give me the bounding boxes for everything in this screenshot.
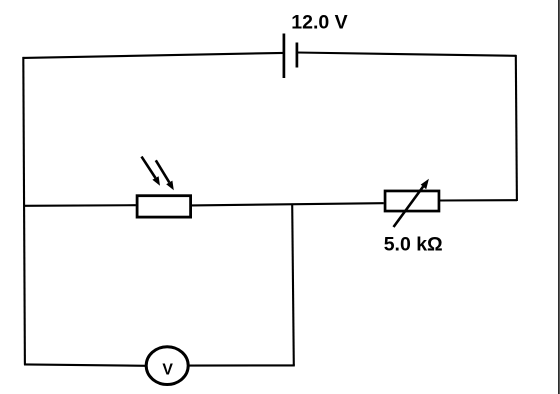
variable resistor R2 body bbox=[385, 191, 439, 211]
wire junction vertical bbox=[292, 204, 294, 365]
wire right vertical bbox=[516, 55, 517, 201]
svg-text:V: V bbox=[162, 362, 173, 379]
LDR R1 body bbox=[137, 196, 191, 217]
battery B1 short plate (-) bbox=[296, 43, 299, 68]
LDR R1 light arrow 2 bbox=[156, 160, 174, 190]
wire middle-left segment bbox=[24, 204, 136, 207]
wire middle-center segment bbox=[192, 203, 384, 205]
wire bottom-left segment bbox=[24, 364, 146, 365]
node junction J1 bbox=[291, 203, 293, 205]
LDR R1 light arrow 1 bbox=[142, 157, 161, 186]
wire left vertical bbox=[23, 57, 25, 365]
wire bottom-right segment bbox=[188, 364, 295, 366]
voltmeter V1 bbox=[146, 347, 188, 385]
wire middle-right segment bbox=[440, 199, 517, 201]
variable resistor R2 arrow bbox=[394, 179, 429, 227]
svg-text:12.0 V: 12.0 V bbox=[291, 12, 347, 34]
svg-text:5.0 kΩ: 5.0 kΩ bbox=[384, 233, 443, 255]
wire top-left segment bbox=[23, 53, 284, 58]
battery B1 long plate (+) bbox=[283, 34, 286, 79]
wire top-right segment bbox=[297, 53, 516, 56]
